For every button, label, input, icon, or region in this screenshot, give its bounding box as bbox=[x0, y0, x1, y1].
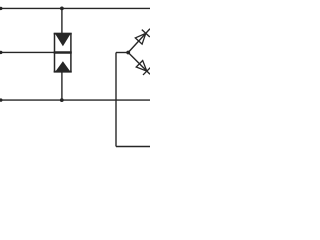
terminal dot top-left bbox=[0, 7, 3, 10]
wire diagonal up-right bbox=[128, 29, 150, 53]
wire bridge left arm horizontal bbox=[116, 52, 128, 54]
wire bottom horizontal bbox=[0, 99, 150, 101]
junction node bridge input (dot) bbox=[126, 51, 130, 55]
wire top horizontal bbox=[0, 7, 150, 9]
wire vertical lead bottom (rectifier V2 to bottom wire) bbox=[61, 72, 63, 100]
diode D2 cathode bar bbox=[143, 67, 151, 75]
wire vertical lead top (top wire to rectifier V1) bbox=[61, 8, 63, 33]
wire bridge bottom arm bbox=[116, 146, 150, 148]
wire middle horizontal (center tap) bbox=[0, 51, 55, 53]
terminal dot bottom-left bbox=[0, 98, 3, 101]
rectifier cell V2 (box with filled triangle, conducts upward) bbox=[55, 53, 71, 72]
terminal dot middle-left bbox=[0, 51, 3, 54]
wire diagonal down-right bbox=[128, 53, 150, 75]
shared middle edge of the two cells bbox=[54, 51, 72, 54]
diode D1 cathode bar bbox=[142, 30, 150, 37]
wire bridge left arm vertical bbox=[115, 53, 117, 147]
rectifier cell V1 (box with filled triangle, conducts downward) bbox=[55, 34, 71, 53]
diode D1 (outline, pointing up-right) bbox=[135, 33, 146, 44]
diode D2 (outline, pointing down-right) bbox=[136, 61, 147, 72]
junction node bottom (dot on bottom wire) bbox=[60, 98, 64, 102]
junction node top (dot on top wire) bbox=[60, 6, 64, 10]
